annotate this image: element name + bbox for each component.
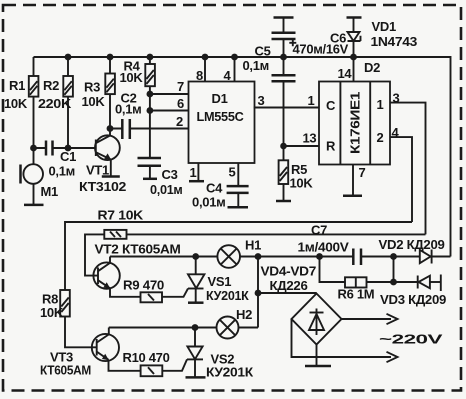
microphone M1 xyxy=(21,148,59,205)
svg-text:3: 3 xyxy=(393,91,400,106)
transistor VT2 KT605AM xyxy=(93,242,180,297)
ground below pin 7 xyxy=(343,194,362,197)
resistor R10 xyxy=(123,350,170,376)
svg-text:0,01м: 0,01м xyxy=(150,182,183,197)
wire pin 3 of D1 to pin C of D2 xyxy=(254,93,319,108)
svg-text:10K: 10K xyxy=(40,305,64,320)
ground bar above VD1 xyxy=(347,16,362,19)
svg-text:2: 2 xyxy=(377,130,384,145)
svg-text:R1: R1 xyxy=(9,78,25,93)
node: VS1 anode junction xyxy=(192,253,199,260)
svg-text:КУ201К: КУ201К xyxy=(206,365,253,380)
ground bar below VS1 xyxy=(188,301,204,304)
lamp H2 xyxy=(217,307,253,339)
svg-text:R3: R3 xyxy=(84,80,100,95)
svg-text:КУ201К: КУ201К xyxy=(206,288,249,303)
svg-text:M1: M1 xyxy=(41,184,59,199)
svg-text:5: 5 xyxy=(229,165,236,180)
ground below pin 1 xyxy=(189,180,204,183)
ground bar below VS2 xyxy=(186,376,206,379)
resistor R8 xyxy=(40,290,97,347)
ground bar above C6 xyxy=(274,16,294,19)
zener diode VD1 1N4743 xyxy=(348,18,418,58)
ground below M1 xyxy=(24,204,44,207)
svg-text:VS1: VS1 xyxy=(208,274,232,289)
resistor R5 xyxy=(279,146,314,201)
wire pin 5 xyxy=(229,163,239,186)
op-amp/timer D1 LM555C xyxy=(189,82,255,164)
svg-text:VD1: VD1 xyxy=(372,19,396,34)
wire pin 13 (R) xyxy=(284,131,320,147)
svg-text:7: 7 xyxy=(177,79,184,94)
ground below bridge xyxy=(305,365,331,368)
node: bridge branch junction xyxy=(255,290,262,297)
svg-text:LM555C: LM555C xyxy=(197,109,245,124)
svg-text:1N4743: 1N4743 xyxy=(371,34,418,49)
svg-text:1: 1 xyxy=(377,97,384,112)
thyristor VS1 KU201K xyxy=(162,257,249,304)
svg-text:14: 14 xyxy=(338,66,353,81)
svg-text:1: 1 xyxy=(190,165,197,180)
svg-text:470м/16V: 470м/16V xyxy=(293,42,349,57)
counter IC D2 K176IE1 xyxy=(319,60,390,165)
node: rail junction dots xyxy=(65,54,357,61)
svg-text:7: 7 xyxy=(359,165,366,180)
wire pin 1 to ground xyxy=(190,163,199,181)
svg-text:0,1м: 0,1м xyxy=(115,102,142,117)
wire pin 7 xyxy=(150,93,189,95)
svg-text:C3: C3 xyxy=(162,167,178,182)
svg-text:R9 470: R9 470 xyxy=(123,278,164,293)
node: R6 right junction xyxy=(390,279,397,286)
resistor R4 xyxy=(120,57,155,158)
node: C1 junction dots xyxy=(30,145,71,152)
node: VT1 collector junction xyxy=(107,125,114,132)
svg-text:4: 4 xyxy=(224,68,232,83)
wire bridge AC output bottom xyxy=(292,319,392,357)
svg-text:КД226: КД226 xyxy=(270,278,308,293)
node: VS2 anode junction xyxy=(192,324,199,331)
wire bridge AC output top xyxy=(342,318,392,320)
capacitor C1 xyxy=(34,141,96,179)
svg-text:10K: 10K xyxy=(120,70,144,85)
node: pin7/pin6 junction dots on R4 line xyxy=(147,91,154,114)
svg-text:0,1м: 0,1м xyxy=(49,164,76,179)
wire pin 7 of D2 to ground xyxy=(353,165,366,196)
wire pin 4 xyxy=(234,57,236,82)
svg-text:H2: H2 xyxy=(236,307,252,322)
arrow to 220V line 2 xyxy=(387,352,398,362)
bridge rectifier VD4-VD7 KD226 xyxy=(261,264,342,345)
capacitor C4 xyxy=(192,181,249,210)
svg-text:R: R xyxy=(326,139,336,154)
ground below VT1 emitter xyxy=(102,175,120,178)
svg-text:C7: C7 xyxy=(311,223,327,238)
svg-text:R7 10K: R7 10K xyxy=(98,208,144,223)
svg-text:R6 1M: R6 1M xyxy=(338,287,375,302)
ground below C3 xyxy=(143,178,157,181)
svg-text:0,1м: 0,1м xyxy=(243,58,270,73)
svg-text:8: 8 xyxy=(196,68,203,83)
node: C7 right junction xyxy=(390,253,397,260)
svg-text:1м/400V: 1м/400V xyxy=(298,240,350,255)
transistor VT3 KT605AM xyxy=(40,328,141,378)
svg-text:4: 4 xyxy=(392,125,400,140)
svg-text:C: C xyxy=(326,98,336,113)
svg-text:10K: 10K xyxy=(82,94,106,109)
wire H1 row xyxy=(110,256,451,258)
diode VD3 KD209 xyxy=(380,275,446,308)
resistor R6 xyxy=(338,277,375,301)
resistor R7 xyxy=(85,208,426,276)
node: H1/bridge branch junction xyxy=(255,253,262,260)
capacitor C7 xyxy=(298,223,362,266)
capacitor C6 (electrolytic) xyxy=(272,18,349,58)
svg-text:C5: C5 xyxy=(255,44,271,59)
wire Vcc top rail xyxy=(34,57,451,257)
wire bridge minus to ground xyxy=(316,345,318,367)
thyristor VS2 KU201K xyxy=(162,328,253,380)
wire pin 14 xyxy=(338,57,354,82)
lamp H1 xyxy=(217,238,261,268)
wire C7/R6 loop xyxy=(320,257,418,283)
svg-text:3: 3 xyxy=(258,93,265,108)
resistor R3 xyxy=(82,57,115,129)
svg-text:C4: C4 xyxy=(206,181,223,196)
capacitor C2 xyxy=(110,91,189,140)
wire H2 row xyxy=(109,327,258,329)
transistor VT1 KT3102 xyxy=(79,129,126,195)
svg-text:13: 13 xyxy=(303,131,317,146)
svg-text:КТ605АМ: КТ605АМ xyxy=(40,363,91,378)
wire pin 3 of D2 down to R7 xyxy=(390,91,426,235)
node: C7/R6 junction xyxy=(316,253,323,260)
resistor R9 xyxy=(123,278,164,303)
wire branch to bridge xyxy=(258,257,317,328)
svg-text:1: 1 xyxy=(308,93,315,108)
svg-text:VD3 КД209: VD3 КД209 xyxy=(380,292,446,307)
svg-text:VD2 КД209: VD2 КД209 xyxy=(379,237,445,252)
svg-text:2: 2 xyxy=(176,114,183,129)
svg-text:10K: 10K xyxy=(4,96,28,111)
ground below C4 xyxy=(228,206,249,209)
wire pin 6 xyxy=(150,110,189,112)
svg-text:VD4-VD7: VD4-VD7 xyxy=(261,264,317,279)
ground below R5 xyxy=(276,200,291,203)
wire pin 8 xyxy=(204,57,206,82)
svg-text:10K: 10K xyxy=(290,176,314,191)
resistor R2 xyxy=(38,57,73,148)
svg-text:К176ИЕ1: К176ИЕ1 xyxy=(348,92,363,154)
svg-text:6: 6 xyxy=(177,96,184,111)
svg-text:~220V: ~220V xyxy=(379,332,443,347)
svg-text:D2: D2 xyxy=(364,60,380,75)
svg-text:D1: D1 xyxy=(212,91,228,106)
svg-text:220K: 220K xyxy=(38,96,72,111)
svg-text:H1: H1 xyxy=(245,238,261,253)
svg-text:VT2 КТ605АМ: VT2 КТ605АМ xyxy=(95,242,181,257)
svg-text:КТ3102: КТ3102 xyxy=(79,179,126,194)
diode VD2 KD209 xyxy=(379,237,445,264)
svg-text:R10 470: R10 470 xyxy=(123,350,170,365)
arrow to 220V line 1 xyxy=(387,314,398,324)
capacitor C3 xyxy=(138,158,183,197)
wire long run from pin4 to R8 xyxy=(65,222,412,290)
wire pin 4 of D2 down to R8 line xyxy=(390,125,412,222)
svg-text:R2: R2 xyxy=(43,78,59,93)
svg-text:0,01м: 0,01м xyxy=(192,195,226,210)
capacitor C5 xyxy=(243,44,296,147)
node: R5/C5/pin13 junction xyxy=(280,143,287,150)
resistor R1 xyxy=(4,57,38,148)
